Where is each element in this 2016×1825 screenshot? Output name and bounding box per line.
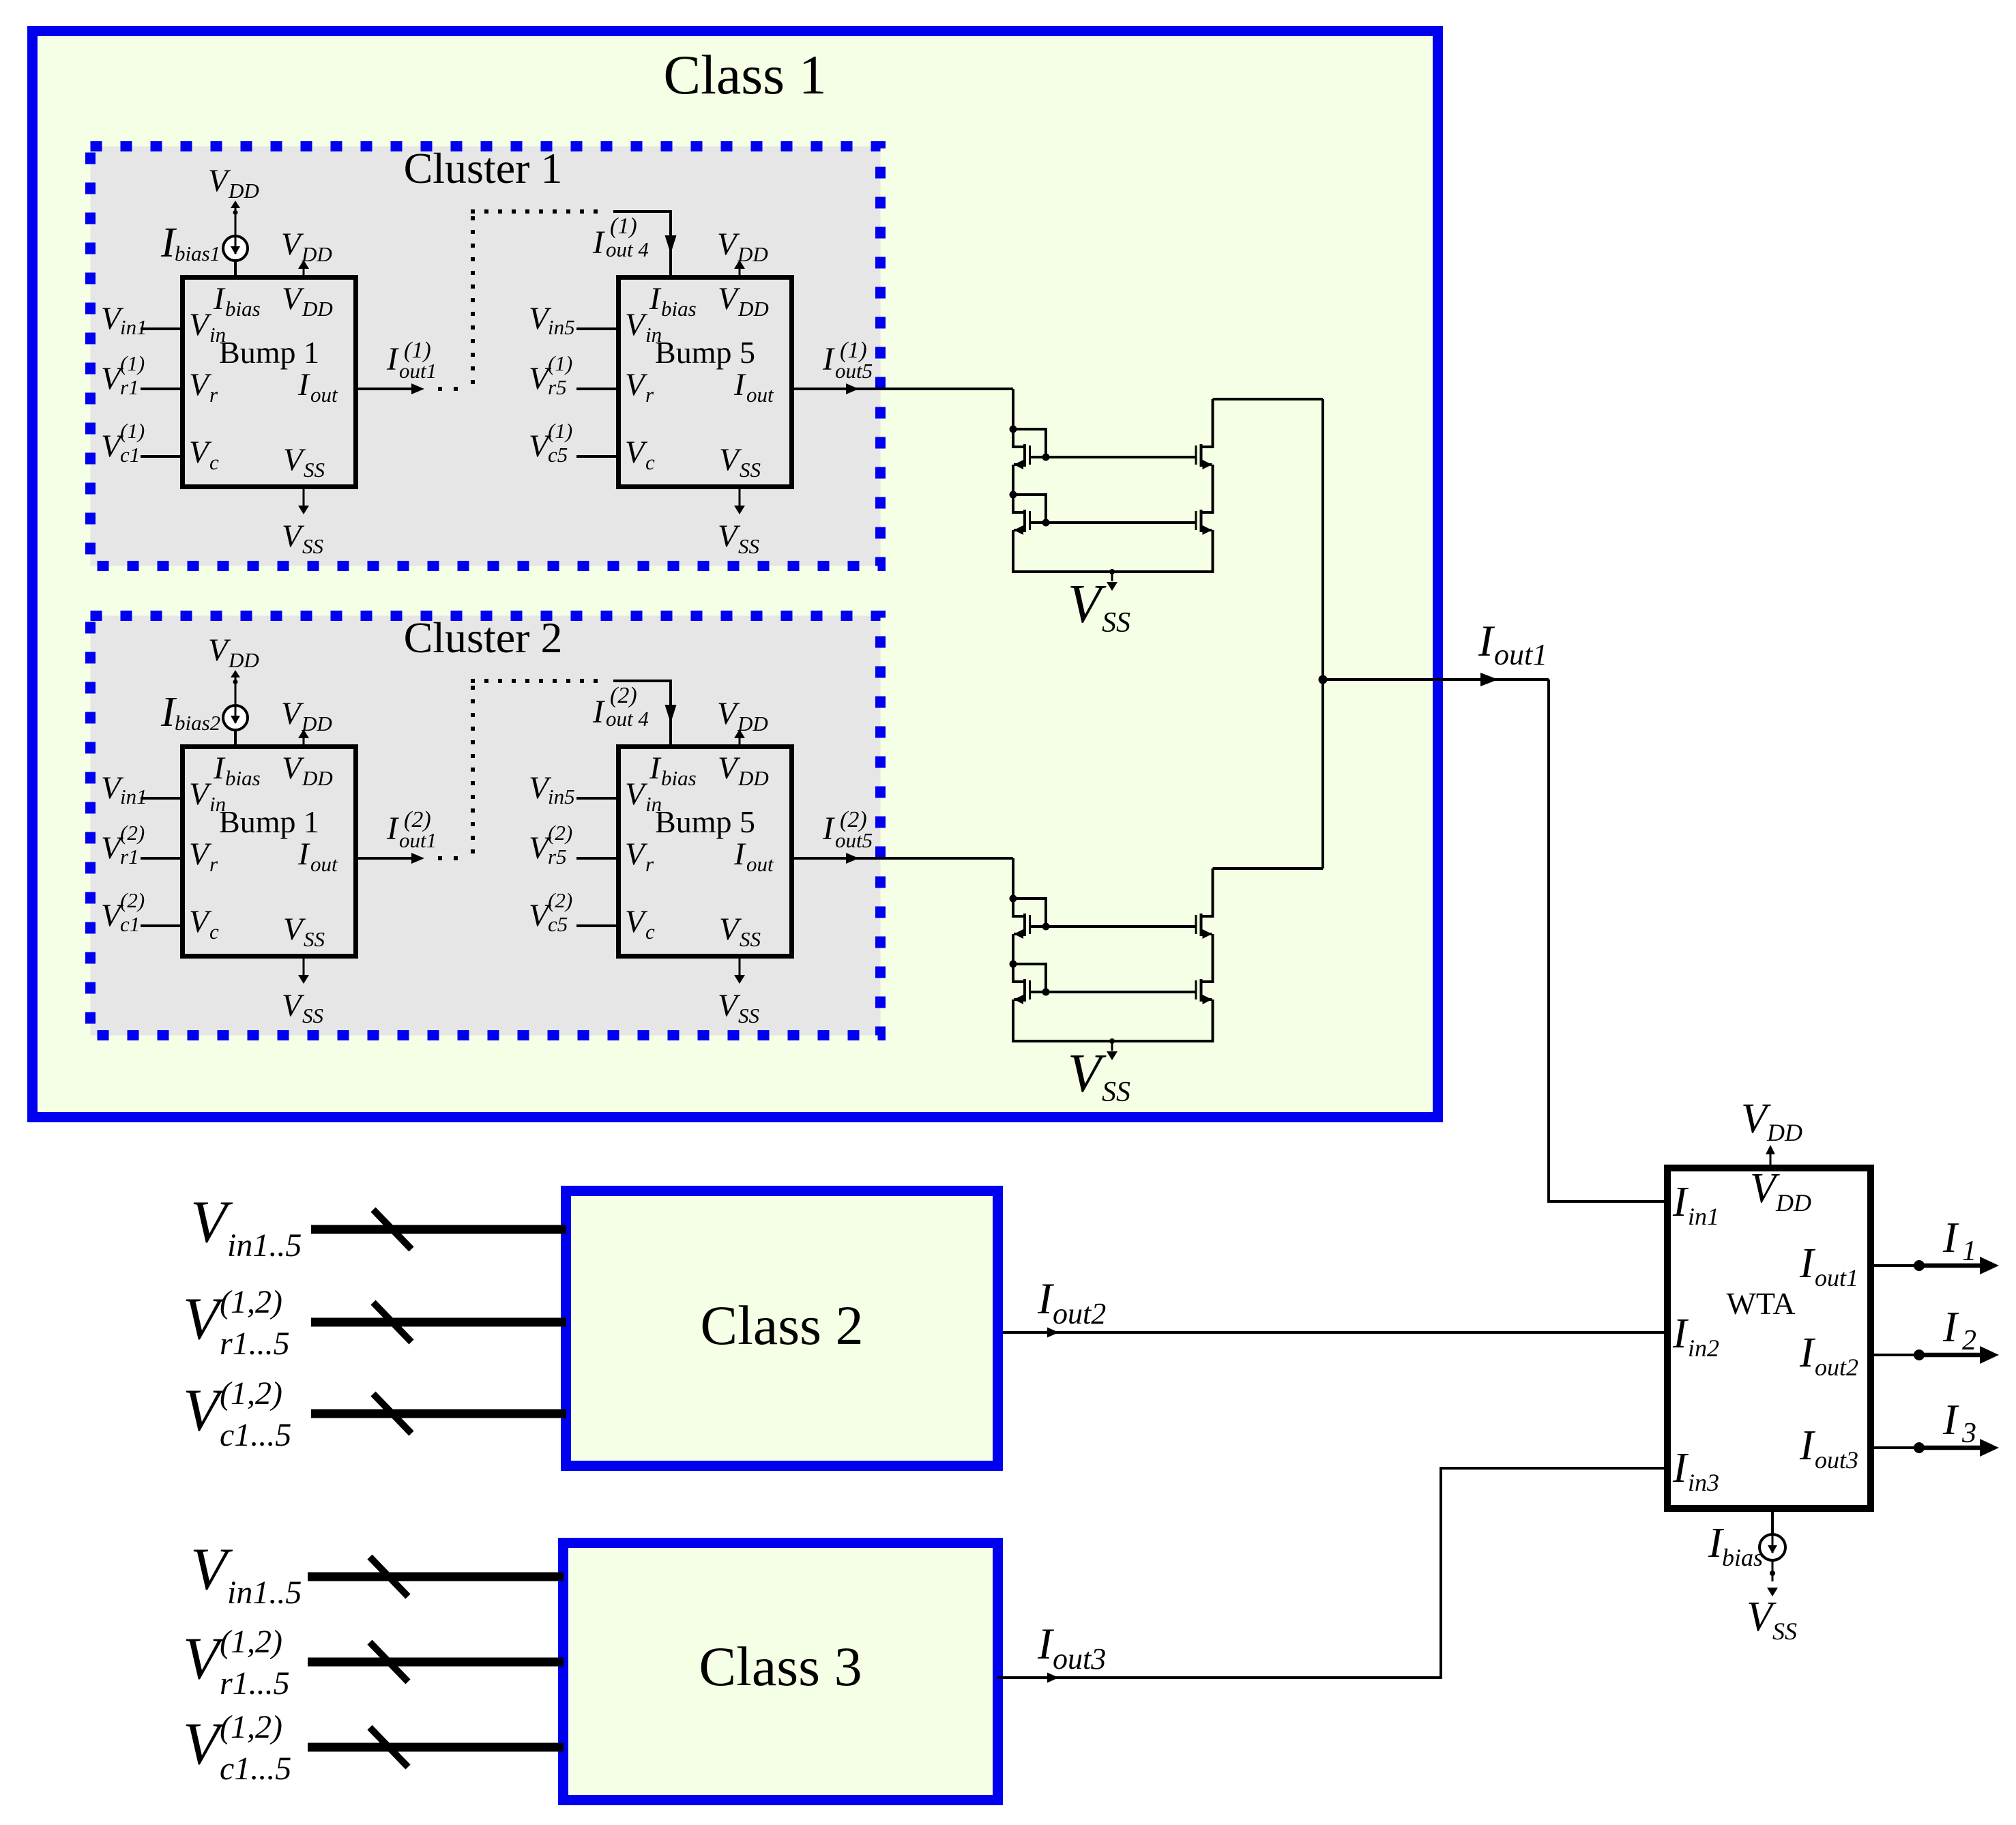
- Bump 1 pin label V_c: [189, 435, 219, 474]
- bus slash: [373, 1210, 411, 1249]
- svg-text:I: I: [1942, 1214, 1959, 1261]
- junction dot above I_bias1 source: [233, 210, 238, 215]
- wire I_out1 (1) output of Bump 1: [358, 388, 413, 390]
- label I_out1 (1): [386, 338, 437, 383]
- wire gate line lower mirror 2: [1031, 991, 1195, 993]
- svg-text:I: I: [1672, 1445, 1689, 1491]
- svg-text:(2): (2): [548, 888, 572, 912]
- svg-text:I: I: [1478, 617, 1495, 666]
- wire M2 source to rail mirror 1: [1012, 530, 1014, 573]
- label V_in1..5 (Class 2): [190, 1189, 302, 1264]
- label V_in1: [101, 301, 147, 339]
- svg-text:r: r: [209, 852, 218, 876]
- Bump 1 pin label V_SS: [283, 911, 325, 951]
- V_SS label below Bump 1: [282, 988, 323, 1027]
- svg-text:c: c: [645, 920, 655, 944]
- wire V_c pin (Bump 1, Cluster 1): [141, 455, 180, 458]
- svg-text:V: V: [1068, 574, 1107, 634]
- svg-text:SS: SS: [738, 1004, 759, 1027]
- wire M3 source to M4 drain mirror 1: [1212, 465, 1214, 512]
- junction dot M2 drain mirror 1: [1010, 491, 1017, 499]
- svg-text:(1): (1): [548, 419, 572, 443]
- Bump 5 pin label I_out: [733, 836, 774, 876]
- junction dot M2 gate node mirror 1: [1042, 519, 1050, 527]
- svg-text:I: I: [1942, 1396, 1959, 1444]
- svg-text:I: I: [297, 836, 310, 872]
- svg-text:out5: out5: [835, 828, 873, 852]
- WTA block box: [1667, 1168, 1871, 1508]
- svg-text:Class 1: Class 1: [663, 44, 826, 106]
- V_SS pin arrow (Bump 1, Cluster 1): [303, 489, 305, 506]
- svg-text:SS: SS: [304, 927, 325, 951]
- V_SS arrow mirror 2: [1109, 1038, 1115, 1044]
- wire mirror 1 output top rail: [1213, 398, 1324, 400]
- wire diode connection M2 mirror 1: [1013, 495, 1046, 523]
- wire I_out1 (2) output of Bump 1: [358, 857, 413, 860]
- V_SS label below WTA: [1747, 1594, 1797, 1645]
- wire I_out4 (1) into Bump 5 I_bias: [613, 211, 671, 276]
- svg-text:I: I: [297, 367, 310, 403]
- svg-text:SS: SS: [302, 534, 323, 558]
- label V_in5: [529, 301, 575, 339]
- svg-text:out3: out3: [1815, 1446, 1858, 1474]
- V_DD label above Bump 5: [717, 227, 768, 266]
- svg-text:out1: out1: [1494, 638, 1547, 671]
- svg-text:I: I: [1672, 1179, 1689, 1225]
- label V_in1..5 (Class 3): [190, 1536, 302, 1611]
- bus V_r1...5 (1,2) into Class 3: [308, 1658, 564, 1667]
- wire I_bias to V_SS: [1772, 1560, 1774, 1581]
- svg-text:(1,2): (1,2): [220, 1284, 282, 1320]
- svg-text:I: I: [822, 341, 835, 377]
- WTA pin label I_in2: [1672, 1311, 1719, 1362]
- wire I_out3 of WTA to I_3: [1874, 1446, 1919, 1449]
- junction dot mirror 1 M1 drain: [1010, 426, 1017, 433]
- junction dot M1 gate node mirror 1: [1042, 454, 1050, 461]
- V_DD label above WTA: [1741, 1096, 1802, 1146]
- label V_c1...5 (1,2) (Class 2): [183, 1375, 291, 1453]
- svg-text:r1: r1: [120, 375, 139, 399]
- wire M4 source to rail mirror 1: [1212, 530, 1214, 573]
- bus slash: [370, 1642, 408, 1682]
- svg-text:SS: SS: [1102, 607, 1130, 639]
- svg-text:I: I: [733, 367, 746, 403]
- svg-text:out2: out2: [1815, 1354, 1858, 1381]
- Bump 5 pin label V_in: [625, 307, 662, 347]
- wire from I_out5 (1) down into mirror 1: [1012, 389, 1014, 429]
- Bump 5 pin label V_in: [625, 776, 662, 816]
- svg-text:Class 2: Class 2: [700, 1294, 863, 1356]
- junction dot M2 drain mirror 2: [1010, 961, 1017, 968]
- V_DD label above Bump 5: [717, 696, 768, 735]
- svg-text:SS: SS: [1772, 1618, 1797, 1645]
- svg-text:r: r: [645, 383, 654, 407]
- V_SS arrow mirror 1: [1109, 569, 1115, 574]
- wire I_out5 (2) output of Bump 5: [794, 857, 1013, 860]
- wire node I_out1 to the right: [1323, 678, 1549, 681]
- wire I_out1 down to WTA I_in1: [1549, 680, 1664, 1201]
- svg-text:I: I: [1799, 1422, 1816, 1469]
- svg-text:DD: DD: [302, 297, 333, 321]
- label V_in1: [101, 770, 147, 808]
- wire long vertical joining mirror outputs (node I_out1): [1321, 399, 1324, 868]
- wire gate line upper mirror 1: [1031, 456, 1195, 458]
- V_DD label above I_bias2: [208, 632, 259, 672]
- wire I_out1 of WTA to I_1: [1874, 1264, 1919, 1267]
- wire V_SS rail mirror 2: [1012, 1040, 1214, 1042]
- wire diode connection M1 mirror 2: [1013, 899, 1046, 926]
- svg-text:(2): (2): [548, 821, 572, 845]
- svg-text:bias: bias: [225, 766, 261, 790]
- svg-text:Cluster 1: Cluster 1: [404, 144, 563, 192]
- svg-text:out 4: out 4: [606, 237, 649, 261]
- bus V_c1...5 (1,2) into Class 2: [311, 1410, 566, 1418]
- V_SS label below Bump 1: [282, 519, 323, 558]
- V_DD arrow above I_bias1: [235, 208, 237, 212]
- svg-text:in2: in2: [1688, 1334, 1719, 1362]
- svg-text:Bump 5: Bump 5: [655, 804, 755, 839]
- WTA pin label I_in1: [1672, 1179, 1719, 1230]
- Bump 5 (Cluster 2) box: [619, 747, 792, 957]
- svg-text:c5: c5: [548, 912, 568, 936]
- svg-text:DD: DD: [301, 712, 332, 735]
- dotted wire continuation after I_out1 (2): [438, 856, 458, 860]
- svg-text:in5: in5: [548, 785, 575, 808]
- wire gate line lower mirror 1: [1031, 521, 1195, 524]
- Bump 1 pin label V_DD: [282, 281, 333, 321]
- transistor M2 mirror 2 (NMOS): [1012, 964, 1031, 1004]
- Bump 1 pin label V_SS: [283, 442, 325, 482]
- transistor M1 mirror 2 (NMOS): [1012, 899, 1031, 939]
- label V_c5 (1): [529, 419, 572, 467]
- V_SS label below Bump 5: [718, 519, 759, 558]
- V_DD label above I_bias1: [208, 163, 259, 203]
- svg-text:I: I: [1799, 1330, 1816, 1376]
- svg-text:I: I: [592, 694, 605, 730]
- label V_r1 (2): [101, 821, 145, 868]
- svg-text:c1: c1: [120, 443, 140, 467]
- svg-text:bias1: bias1: [175, 242, 220, 265]
- label I_3: [1942, 1396, 1976, 1449]
- WTA pin label I_out1: [1799, 1240, 1858, 1291]
- svg-text:(1,2): (1,2): [220, 1709, 282, 1745]
- svg-text:DD: DD: [302, 766, 333, 790]
- Bump 1 pin label I_out: [297, 836, 338, 876]
- dotted wire continuation after I_out1 (1): [438, 387, 458, 391]
- wire M2 source to rail mirror 2: [1012, 999, 1014, 1042]
- svg-text:(2): (2): [120, 888, 145, 912]
- Cluster 1 dashed box: [91, 147, 881, 566]
- Bump 1 pin label V_r: [189, 367, 218, 407]
- Cluster 2 dashed box: [91, 616, 881, 1036]
- svg-text:r: r: [645, 852, 654, 876]
- wire M1 source to M2 drain mirror 1: [1012, 465, 1014, 495]
- Bump 5 pin label I_bias: [649, 750, 697, 790]
- label V_c1...5 (1,2) (Class 3): [183, 1709, 291, 1787]
- svg-text:(2): (2): [120, 821, 145, 845]
- svg-text:r1...5: r1...5: [220, 1326, 290, 1362]
- svg-text:Class 3: Class 3: [699, 1635, 862, 1697]
- svg-text:bias2: bias2: [175, 711, 220, 735]
- svg-text:SS: SS: [740, 458, 761, 482]
- bus V_in1..5 into Class 3: [308, 1573, 564, 1581]
- svg-text:r: r: [209, 383, 218, 407]
- V_SS pin arrow (Bump 1, Cluster 2): [303, 959, 305, 975]
- wire I_out4 (2) into Bump 5 I_bias: [613, 681, 671, 745]
- Bump 5 pin label V_DD: [718, 750, 769, 790]
- svg-text:(1): (1): [120, 419, 145, 443]
- Class 3 block box: [564, 1543, 998, 1800]
- label V_c1 (2): [101, 888, 145, 936]
- junction dot mirror 2 M1 drain: [1010, 895, 1017, 903]
- svg-text:in3: in3: [1688, 1469, 1719, 1496]
- junction dot node I_out1: [1319, 675, 1328, 684]
- transistor M2 mirror 1 (NMOS): [1012, 495, 1031, 535]
- junction dot M1 gate node mirror 2: [1042, 923, 1050, 931]
- svg-text:(1): (1): [610, 214, 637, 239]
- label I_2: [1942, 1303, 1976, 1356]
- bus V_r1...5 (1,2) into Class 2: [311, 1318, 566, 1327]
- svg-text:out5: out5: [835, 359, 873, 383]
- svg-text:r5: r5: [548, 845, 567, 868]
- label I_out1 (2): [386, 807, 437, 852]
- svg-text:I: I: [649, 750, 662, 786]
- svg-text:c: c: [209, 920, 219, 944]
- label V_r1 (1): [101, 351, 145, 399]
- svg-text:out: out: [746, 383, 774, 407]
- junction dot M2 gate node mirror 2: [1042, 989, 1050, 996]
- label I_out5 (2): [822, 807, 873, 852]
- wire diode connection M2 mirror 2: [1013, 964, 1046, 992]
- Bump 5 (Cluster 1) box: [619, 278, 792, 487]
- Bump 1 (Cluster 2) box: [183, 747, 356, 957]
- wire V_SS rail mirror 1: [1012, 570, 1214, 573]
- svg-text:DD: DD: [737, 297, 769, 321]
- svg-text:out: out: [310, 852, 338, 876]
- svg-text:DD: DD: [737, 712, 768, 735]
- svg-text:out2: out2: [1053, 1297, 1106, 1330]
- wire mirror 2 output top rail: [1213, 867, 1324, 870]
- wire from I_out5 (2) down into mirror 2: [1012, 858, 1014, 899]
- V_DD pin arrow (Bump 5, Cluster 2): [739, 737, 741, 744]
- bus V_c1...5 (1,2) into Class 3: [308, 1743, 564, 1752]
- wire V_in pin (Bump 5, Cluster 2): [576, 797, 616, 800]
- svg-text:out 4: out 4: [606, 707, 649, 731]
- Bump 1 pin label I_out: [297, 367, 338, 407]
- wire M3 drain up to output rail mirror 2: [1212, 868, 1214, 916]
- bus V_in1..5 into Class 2: [311, 1225, 566, 1234]
- bus slash: [373, 1394, 411, 1433]
- I_bias label (WTA): [1708, 1520, 1763, 1571]
- svg-text:SS: SS: [740, 927, 761, 951]
- svg-text:DD: DD: [737, 766, 769, 790]
- svg-text:out: out: [310, 383, 338, 407]
- label I_out2 node: [1037, 1274, 1106, 1330]
- svg-text:(1): (1): [548, 351, 572, 375]
- svg-text:I: I: [1672, 1311, 1689, 1357]
- svg-text:2: 2: [1962, 1325, 1976, 1356]
- Bump 5 pin label V_SS: [719, 442, 761, 482]
- Bump 1 pin label V_in: [189, 776, 226, 816]
- svg-text:3: 3: [1961, 1418, 1976, 1449]
- svg-text:I: I: [649, 281, 662, 317]
- dotted wire horizontal to I_out4 (2) (Cluster 2): [471, 679, 598, 683]
- current source I_bias2 (Cluster 2): [223, 705, 248, 730]
- svg-text:DD: DD: [228, 179, 259, 203]
- I_bias current source below WTA: [1771, 1512, 1774, 1534]
- Class 1 block box: [33, 31, 1438, 1118]
- V_DD pin arrow (Bump 1, Cluster 1): [303, 267, 305, 275]
- svg-text:SS: SS: [1102, 1077, 1130, 1108]
- svg-text:SS: SS: [302, 1004, 323, 1027]
- svg-text:1: 1: [1962, 1236, 1976, 1267]
- Bump 5 pin label V_c: [625, 435, 655, 474]
- svg-text:in5: in5: [548, 315, 575, 339]
- Bump 5 pin label V_r: [625, 367, 654, 407]
- WTA pin label I_out2: [1799, 1330, 1858, 1381]
- svg-text:r1...5: r1...5: [220, 1665, 290, 1702]
- svg-text:bias: bias: [661, 297, 697, 321]
- svg-text:in: in: [209, 323, 226, 347]
- label I_out4 (2): [592, 683, 649, 731]
- transistor M3 mirror 2 (NMOS): [1195, 914, 1214, 939]
- Bump 5 pin label V_r: [625, 836, 654, 876]
- svg-text:(1,2): (1,2): [220, 1624, 282, 1660]
- Bump 1 pin label I_bias: [213, 281, 261, 321]
- Bump 5 pin label I_out: [733, 367, 774, 407]
- junction dot above I_bias2 source: [233, 680, 238, 684]
- label I_out3 node: [1037, 1620, 1106, 1676]
- svg-text:in1: in1: [120, 315, 147, 339]
- svg-text:SS: SS: [738, 534, 759, 558]
- svg-text:I: I: [386, 341, 399, 377]
- svg-text:DD: DD: [1775, 1189, 1811, 1216]
- wire I_out2 from Class 2 to WTA I_in2: [1003, 1331, 1664, 1334]
- wire V_r pin (Bump 5, Cluster 2): [576, 857, 616, 860]
- label I_out5 (1): [822, 338, 873, 383]
- svg-text:in: in: [209, 792, 226, 816]
- V_DD label above Bump 1: [281, 227, 332, 266]
- I_bias2 label: [160, 689, 220, 735]
- Bump 5 pin label V_SS: [719, 911, 761, 951]
- svg-text:I: I: [1942, 1303, 1959, 1351]
- svg-text:in1: in1: [120, 785, 147, 808]
- svg-text:r5: r5: [548, 375, 567, 399]
- svg-text:c: c: [645, 450, 655, 474]
- V_SS pin arrow (Bump 5, Cluster 2): [739, 959, 741, 975]
- Bump 1 pin label V_c: [189, 904, 219, 944]
- svg-text:I: I: [733, 836, 746, 872]
- wire V_in pin (Bump 1, Cluster 1): [141, 327, 180, 330]
- Bump 5 pin label I_bias: [649, 281, 697, 321]
- Bump 1 pin label V_in: [189, 307, 226, 347]
- svg-text:Bump 1: Bump 1: [219, 804, 319, 839]
- transistor M4 mirror 2 (NMOS): [1195, 979, 1214, 1004]
- label I_out4 (1): [592, 214, 649, 261]
- svg-text:bias: bias: [661, 766, 697, 790]
- label V_r1...5 (1,2) (Class 2): [183, 1284, 290, 1362]
- Bump 1 pin label V_r: [189, 836, 218, 876]
- svg-text:in: in: [645, 792, 662, 816]
- bus slash: [370, 1557, 408, 1596]
- label V_r1...5 (1,2) (Class 3): [183, 1624, 290, 1702]
- svg-text:in: in: [645, 323, 662, 347]
- V_DD pin arrow (Bump 5, Cluster 1): [739, 267, 741, 275]
- transistor M3 mirror 1 (NMOS): [1195, 444, 1214, 469]
- wire I_out2 of WTA to I_2: [1874, 1354, 1919, 1356]
- wire V_c pin (Bump 5, Cluster 2): [576, 924, 616, 927]
- dotted wire horizontal to I_out4 (1) (Cluster 1): [471, 209, 598, 214]
- bus slash: [373, 1302, 411, 1342]
- dotted wire vertical (Cluster 2): [471, 686, 475, 853]
- svg-text:DD: DD: [1766, 1119, 1802, 1146]
- svg-text:Cluster 2: Cluster 2: [404, 613, 563, 662]
- wire M1 source to M2 drain mirror 2: [1012, 934, 1014, 964]
- wire V_in pin (Bump 1, Cluster 2): [141, 797, 180, 800]
- svg-text:out3: out3: [1053, 1642, 1106, 1676]
- wire V_r pin (Bump 1, Cluster 1): [141, 388, 180, 390]
- dotted wire vertical (Cluster 1): [471, 216, 475, 384]
- label V_c5 (2): [529, 888, 572, 936]
- wire V_r pin (Bump 1, Cluster 2): [141, 857, 180, 860]
- wire V_r pin (Bump 5, Cluster 1): [576, 388, 616, 390]
- V_SS pin arrow (Bump 5, Cluster 1): [739, 489, 741, 506]
- Bump 1 pin label I_bias: [213, 750, 261, 790]
- svg-text:I: I: [213, 750, 226, 786]
- svg-text:bias: bias: [225, 297, 261, 321]
- V_DD pin arrow (Bump 1, Cluster 2): [303, 737, 305, 744]
- label V_in5: [529, 770, 575, 808]
- transistor M1 mirror 1 (NMOS): [1012, 429, 1031, 469]
- svg-text:out1: out1: [399, 828, 437, 852]
- junction dot below I_bias: [1770, 1571, 1775, 1576]
- transistor M4 mirror 1 (NMOS): [1195, 510, 1214, 535]
- svg-text:I: I: [592, 224, 605, 261]
- label I_out1 node: [1478, 617, 1547, 671]
- V_DD arrow above I_bias2: [235, 677, 237, 682]
- svg-text:r1: r1: [120, 845, 139, 868]
- wire I_out3 from Class 3 to WTA I_in3: [997, 1468, 1664, 1678]
- svg-text:V: V: [1068, 1044, 1107, 1104]
- svg-text:out1: out1: [399, 359, 437, 383]
- svg-text:in1..5: in1..5: [227, 1227, 302, 1264]
- wire V_in pin (Bump 5, Cluster 1): [576, 327, 616, 330]
- current source I_bias1 (Cluster 1): [223, 236, 248, 261]
- svg-text:c5: c5: [548, 443, 568, 467]
- svg-text:c1...5: c1...5: [220, 1417, 291, 1453]
- wire M3 drain up to output rail mirror 1: [1212, 399, 1214, 447]
- wire M3 source to M4 drain mirror 2: [1212, 934, 1214, 982]
- wire V_c pin (Bump 1, Cluster 2): [141, 924, 180, 927]
- svg-text:bias: bias: [1722, 1544, 1763, 1571]
- svg-text:Bump 1: Bump 1: [219, 335, 319, 370]
- V_DD label above Bump 1: [281, 696, 332, 735]
- bus slash: [370, 1727, 408, 1767]
- svg-text:I: I: [1799, 1240, 1816, 1287]
- wire diode connection M1 mirror 1: [1013, 429, 1046, 457]
- svg-text:I: I: [822, 811, 835, 847]
- label V_c1 (1): [101, 419, 145, 467]
- svg-text:in1..5: in1..5: [227, 1575, 302, 1611]
- svg-text:SS: SS: [304, 458, 325, 482]
- svg-text:Bump 5: Bump 5: [655, 335, 755, 370]
- svg-text:out1: out1: [1815, 1264, 1858, 1291]
- svg-text:(1): (1): [120, 351, 145, 375]
- svg-text:I: I: [386, 811, 399, 847]
- V_SS label mirror 2: [1068, 1044, 1130, 1108]
- V_SS label mirror 1: [1068, 574, 1130, 639]
- svg-text:c1...5: c1...5: [220, 1751, 291, 1787]
